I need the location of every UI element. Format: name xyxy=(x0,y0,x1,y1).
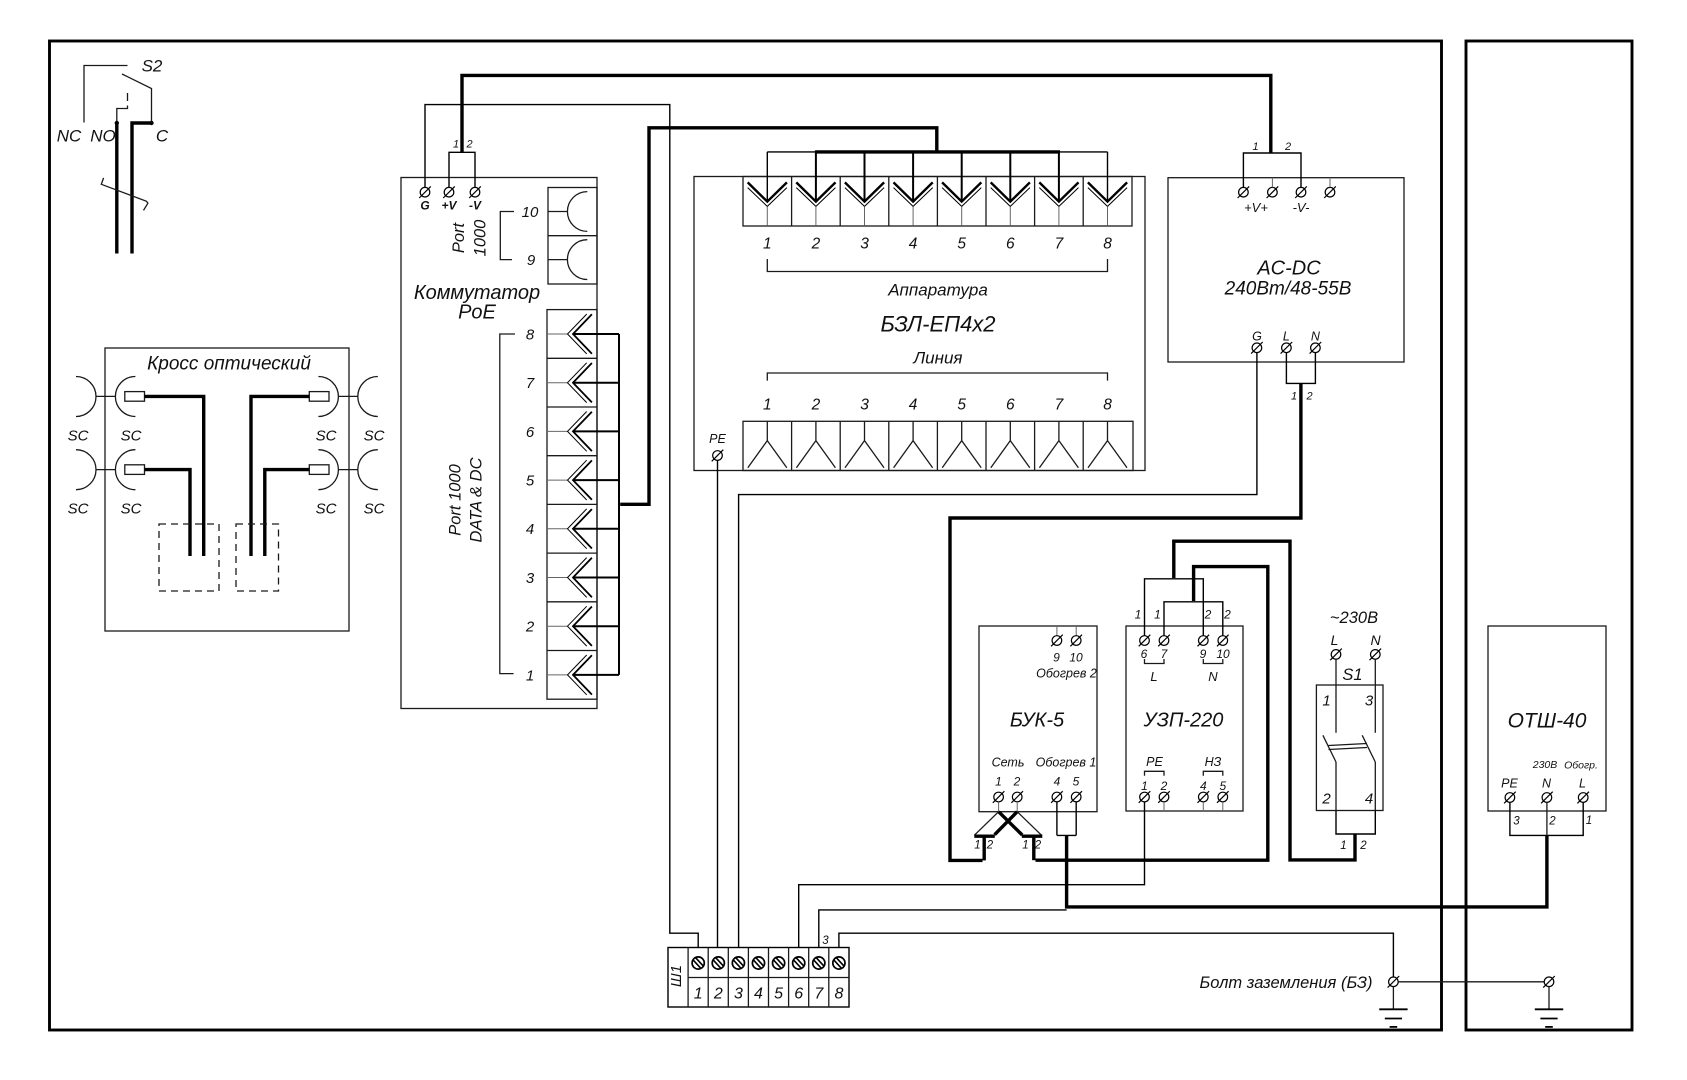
svg-text:2: 2 xyxy=(465,139,472,151)
fiber from bottom-right SC to splice box xyxy=(265,470,310,556)
BZL line pair 7 xyxy=(1039,397,1078,468)
Port 1000 group bracket xyxy=(500,212,514,260)
bus drop pin 8 xyxy=(1107,152,1109,201)
BUK crossover wire Set2 to plug1 xyxy=(995,812,1018,835)
svg-text:Обогрев 2: Обогрев 2 xyxy=(1036,667,1097,681)
svg-text:7: 7 xyxy=(1161,647,1169,661)
AC-DC input connector bracket pins 1 2 xyxy=(1243,141,1301,187)
frame left section xyxy=(50,41,1442,1030)
PoE port 6 connector arrow xyxy=(526,412,592,452)
svg-text:PE: PE xyxy=(709,432,726,446)
wire port 2 stub xyxy=(573,625,619,627)
optical cross box (Кросс оптический) xyxy=(105,348,349,631)
bus drop pin 7 xyxy=(1058,151,1060,202)
UZP terminal NZ-4 xyxy=(1198,779,1210,811)
svg-text:C: C xyxy=(156,127,169,146)
svg-text:10: 10 xyxy=(1216,647,1230,661)
splice cassette dashed box 2 xyxy=(236,524,279,591)
svg-text:1: 1 xyxy=(974,840,980,852)
OTSh connector bracket pins 3 2 1 xyxy=(1510,802,1592,835)
svg-text:2: 2 xyxy=(1160,779,1168,793)
bus drop pin 2 xyxy=(815,151,817,202)
SC connector pair bottom-left xyxy=(68,450,145,518)
svg-text:Кросс оптический: Кросс оптический xyxy=(147,354,311,375)
svg-text:2: 2 xyxy=(986,840,994,852)
PoE Port 1000 strip (ports 10,9) xyxy=(548,188,597,285)
svg-text:DATA & DC: DATA & DC xyxy=(468,457,486,542)
Sh1 screw 1 xyxy=(692,957,704,1003)
UZP PE label bracket xyxy=(1145,755,1165,776)
svg-text:Port: Port xyxy=(450,221,468,253)
OTSh 230V label xyxy=(1532,759,1558,771)
svg-text:2: 2 xyxy=(1204,608,1212,622)
Sh1 screw 5 xyxy=(773,957,785,1003)
svg-text:Обогр.: Обогр. xyxy=(1564,760,1598,772)
svg-text:УЗП-220: УЗП-220 xyxy=(1143,710,1224,732)
svg-text:4: 4 xyxy=(909,397,918,414)
BZL arrester 4 xyxy=(894,182,933,252)
svg-text:НЗ: НЗ xyxy=(1205,755,1222,769)
svg-text:L: L xyxy=(1331,632,1339,648)
svg-text:1000: 1000 xyxy=(472,219,490,257)
svg-text:2: 2 xyxy=(713,986,723,1003)
svg-text:PE: PE xyxy=(1146,755,1163,769)
PoE terminal G xyxy=(419,178,431,213)
svg-text:5: 5 xyxy=(1073,775,1080,789)
switch S2 xyxy=(57,57,169,146)
ports 8..1 group bracket xyxy=(500,334,515,674)
svg-text:БУК-5: БУК-5 xyxy=(1010,710,1065,732)
svg-text:8: 8 xyxy=(834,986,843,1003)
BUK-5 box xyxy=(979,626,1097,812)
svg-text:230В: 230В xyxy=(1532,759,1558,771)
bus drop pin 6 xyxy=(1009,151,1011,202)
svg-text:SC: SC xyxy=(121,428,142,445)
UZP output staple 7-10 xyxy=(1164,602,1223,636)
svg-text:Линия: Линия xyxy=(913,349,963,368)
svg-text:Сеть: Сеть xyxy=(992,756,1025,770)
BZL arrester 8 xyxy=(1088,182,1127,252)
fiber from top-left SC to splice box xyxy=(145,396,204,556)
S1 pole 2 contact xyxy=(1362,659,1375,810)
svg-text:+V+: +V+ xyxy=(1244,200,1268,215)
svg-text:SC: SC xyxy=(68,428,89,445)
svg-text:1: 1 xyxy=(1022,840,1028,852)
svg-text:AC-DC: AC-DC xyxy=(1256,258,1321,280)
PoE terminal -V xyxy=(469,178,482,213)
svg-text:NC: NC xyxy=(57,127,82,146)
svg-text:3: 3 xyxy=(860,236,869,253)
Port 1000 DATA & DC rotated label xyxy=(447,457,486,542)
svg-text:4: 4 xyxy=(909,236,918,253)
svg-text:SC: SC xyxy=(364,428,385,445)
thick wire S1 output to UZP input xyxy=(1174,541,1355,860)
svg-text:10: 10 xyxy=(1069,651,1083,665)
svg-text:6: 6 xyxy=(1141,647,1148,661)
svg-text:L: L xyxy=(1579,777,1586,791)
PoE terminal +V xyxy=(441,178,457,213)
BZL line pair 1 xyxy=(748,397,787,468)
OTSh PE terminal xyxy=(1501,777,1518,804)
svg-text:4: 4 xyxy=(526,521,534,538)
PoE port 4 connector arrow xyxy=(526,509,592,549)
OTSh L terminal xyxy=(1577,777,1589,804)
svg-text:3: 3 xyxy=(822,935,829,947)
bus drop pin 4 xyxy=(912,151,914,202)
wire port 7 stub xyxy=(573,382,619,384)
ground symbol right xyxy=(1535,987,1563,1027)
BUK Obogrev 2 label xyxy=(1036,667,1097,681)
BUK crossover guide Set1 left xyxy=(974,812,998,836)
earth bolt BZ label xyxy=(1200,974,1373,992)
svg-text:8: 8 xyxy=(1103,236,1112,253)
bus drop pin 1 xyxy=(766,152,768,201)
Port 1000 rotated label xyxy=(450,219,490,257)
svg-text:3: 3 xyxy=(1513,816,1520,828)
svg-text:6: 6 xyxy=(1006,236,1015,253)
BZL line pair 3 xyxy=(845,397,884,468)
wire AC-DC G to terminal Sh1-3 xyxy=(739,353,1257,948)
BZL arrester 3 xyxy=(845,182,884,252)
OTSh N terminal xyxy=(1541,777,1553,804)
wire UZP PE-1 to terminal Sh1-6 xyxy=(799,802,1145,948)
PoE power connector bracket pins 1 2 xyxy=(449,139,475,188)
svg-text:1: 1 xyxy=(453,139,459,151)
PoE port 1 connector arrow xyxy=(526,655,592,695)
svg-text:2: 2 xyxy=(1223,608,1231,622)
AC-DC terminal -V pin3 xyxy=(1295,186,1307,198)
svg-text:4: 4 xyxy=(1365,791,1373,808)
svg-text:SC: SC xyxy=(316,428,337,445)
svg-text:2: 2 xyxy=(1034,840,1042,852)
svg-text:1: 1 xyxy=(1340,840,1346,852)
SC connector pair top-right xyxy=(309,377,384,445)
svg-text:6: 6 xyxy=(1006,397,1015,414)
svg-text:L: L xyxy=(1283,330,1290,344)
UZP NZ label bracket xyxy=(1203,755,1223,776)
svg-text:Ш1: Ш1 xyxy=(668,965,685,987)
svg-text:NO: NO xyxy=(90,127,116,146)
Sh1 screw 6 xyxy=(793,957,805,1003)
BZL arrester 6 xyxy=(991,182,1030,252)
UZP terminal 9 xyxy=(1198,635,1210,661)
AC-DC mains connector bracket pins 1 2 xyxy=(1286,353,1315,403)
BUK terminal 10 xyxy=(1069,626,1083,665)
circuit breaker S1 xyxy=(1316,666,1383,811)
svg-text:7: 7 xyxy=(1055,236,1065,253)
svg-text:Аппаратура: Аппаратура xyxy=(887,281,988,300)
svg-text:~230В: ~230В xyxy=(1330,609,1378,627)
svg-text:1: 1 xyxy=(995,775,1002,789)
svg-text:2: 2 xyxy=(811,236,821,253)
svg-text:8: 8 xyxy=(526,326,535,343)
svg-text:2: 2 xyxy=(1284,141,1291,153)
svg-text:9: 9 xyxy=(1200,647,1207,661)
svg-text:S2: S2 xyxy=(142,57,163,76)
svg-text:7: 7 xyxy=(1055,397,1065,414)
wire S2 C down xyxy=(132,123,152,254)
AC-DC terminal +V pin2 xyxy=(1267,178,1279,198)
svg-text:9: 9 xyxy=(1053,651,1060,665)
PoE port 5 connector arrow xyxy=(526,460,592,500)
wire port 3 stub xyxy=(573,577,619,579)
BZL line pair 4 xyxy=(894,397,933,468)
svg-text:PoE: PoE xyxy=(458,302,496,324)
svg-text:2: 2 xyxy=(1548,816,1556,828)
wire Sh1-8 to earth bolt xyxy=(839,933,1394,977)
svg-text:1: 1 xyxy=(1322,693,1330,710)
svg-text:5: 5 xyxy=(774,986,783,1003)
BUK terminal Set-2 xyxy=(1011,775,1023,812)
S1 pole 1 contact xyxy=(1323,659,1336,810)
thick cable PoE ports to BZL bus xyxy=(620,128,937,505)
mains N terminal xyxy=(1370,632,1382,660)
splice cassette dashed box 1 xyxy=(159,524,219,591)
wire S2 NO down xyxy=(115,123,118,254)
svg-text:5: 5 xyxy=(957,397,966,414)
UZP terminal PE-1 xyxy=(1139,779,1151,803)
svg-text:5: 5 xyxy=(1219,779,1226,793)
svg-text:-V: -V xyxy=(469,199,482,213)
BUK plug 1 (left) pins 1 2 xyxy=(974,836,995,860)
svg-text:7: 7 xyxy=(814,986,824,1003)
svg-text:1: 1 xyxy=(526,667,534,684)
port bus vertical xyxy=(618,334,620,675)
svg-text:1: 1 xyxy=(1141,779,1148,793)
svg-text:240Вт/48-55В: 240Вт/48-55В xyxy=(1224,279,1352,300)
svg-text:3: 3 xyxy=(1365,693,1374,710)
svg-text:4: 4 xyxy=(754,986,763,1003)
BZL Apparatura strip xyxy=(743,177,1132,227)
wire Sh1-7 to heater circuit, wire 3 xyxy=(819,910,1067,948)
cable slash mark on S2 wires xyxy=(101,178,148,211)
svg-text:1: 1 xyxy=(1586,815,1592,827)
svg-text:1: 1 xyxy=(1154,608,1161,622)
PoE port 3 connector arrow xyxy=(526,558,592,598)
wire earth bolt to right section bolt xyxy=(1398,981,1544,983)
wire BZL PE to terminal Sh1-2 xyxy=(717,461,719,948)
svg-text:G: G xyxy=(1252,330,1262,344)
svg-text:SC: SC xyxy=(316,501,337,518)
S1 output bracket pins 1 2 xyxy=(1336,811,1375,853)
fiber from top-right SC to splice box xyxy=(251,396,309,556)
svg-text:5: 5 xyxy=(526,473,535,490)
BZL arrester 2 xyxy=(796,182,835,252)
svg-text:3: 3 xyxy=(734,986,743,1003)
~230V mains label xyxy=(1330,609,1378,627)
BZL PE terminal xyxy=(709,432,726,461)
BUK Obogrev 1 label xyxy=(1036,756,1097,770)
UZP-220 box xyxy=(1126,626,1243,811)
BZL distribution bus xyxy=(767,151,1107,153)
svg-text:Обогрев 1: Обогрев 1 xyxy=(1036,756,1097,770)
OTSh Obogr label xyxy=(1564,760,1598,772)
svg-text:2: 2 xyxy=(1359,840,1367,852)
UZP terminal 6 xyxy=(1139,635,1151,661)
wire PoE G to terminal Sh1-1 xyxy=(425,105,698,948)
BZL arrester 7 xyxy=(1039,182,1078,252)
svg-text:9: 9 xyxy=(527,252,536,269)
earth bolt terminal right xyxy=(1543,976,1555,988)
earth bolt terminal left xyxy=(1388,976,1400,988)
svg-text:2: 2 xyxy=(525,619,535,636)
PoE port 7 connector arrow xyxy=(526,363,592,403)
SC connector pair bottom-right xyxy=(309,450,384,518)
SC connector pair top-left xyxy=(68,377,145,445)
BZL line pair 5 xyxy=(942,397,981,468)
thick wire PoE 1,2 to AC-DC +V+/-V- xyxy=(462,75,1271,152)
AC-DC bottom N terminal xyxy=(1310,330,1322,354)
BZL Linia strip xyxy=(743,421,1133,470)
BUK crossover wire Set1 to plug2 xyxy=(999,812,1023,835)
UZP terminal PE-2 xyxy=(1158,779,1170,811)
svg-text:-V-: -V- xyxy=(1293,200,1311,215)
svg-text:2: 2 xyxy=(1013,775,1021,789)
AC-DC bottom G terminal xyxy=(1251,330,1263,354)
mains L terminal xyxy=(1330,632,1342,660)
PoE port 9 jack xyxy=(527,240,587,280)
svg-text:БЗЛ-ЕП4х2: БЗЛ-ЕП4х2 xyxy=(880,312,995,337)
S1 mechanical linkage xyxy=(1329,744,1368,750)
AC-DC +V+ label xyxy=(1244,200,1268,215)
wire port 8 stub xyxy=(573,333,619,335)
terminal block Sh1 xyxy=(668,948,849,1008)
svg-text:Болт заземления (БЗ): Болт заземления (БЗ) xyxy=(1200,974,1373,992)
ground symbol left xyxy=(1379,987,1407,1027)
svg-text:3: 3 xyxy=(860,397,869,414)
AC-DC bottom L terminal xyxy=(1281,330,1293,354)
svg-text:6: 6 xyxy=(794,986,803,1003)
BUK terminal 9 xyxy=(1051,626,1063,665)
bus drop pin 3 xyxy=(864,151,866,202)
svg-text:2: 2 xyxy=(1321,791,1331,808)
UZP connector pin labels 1 1 2 2 xyxy=(1135,608,1232,622)
BUK terminal Obogrev-4 xyxy=(1051,775,1063,803)
thick wire AC-DC mains to BUK plug 1 xyxy=(950,383,1301,860)
BZL arrester 5 xyxy=(942,182,981,252)
wire port 6 stub xyxy=(573,430,619,432)
svg-text:1: 1 xyxy=(763,397,772,414)
Sh1 screw 7 xyxy=(813,957,825,1003)
BZL-EP4x2 box xyxy=(694,177,1145,471)
svg-text:G: G xyxy=(420,199,429,213)
UZP L bracket xyxy=(1145,659,1165,684)
BUK terminal Obogrev-5 xyxy=(1070,775,1082,803)
svg-text:2: 2 xyxy=(811,397,821,414)
UZP terminal NZ-5 xyxy=(1217,779,1229,811)
svg-text:+V: +V xyxy=(441,199,457,213)
svg-text:1: 1 xyxy=(1291,391,1297,403)
BUK Obogrev1 output bracket xyxy=(1057,802,1076,836)
UZP terminal 7 xyxy=(1158,635,1170,661)
bus drop pin 5 xyxy=(961,151,963,202)
svg-text:Port 1000: Port 1000 xyxy=(447,463,465,535)
svg-text:SC: SC xyxy=(121,501,142,518)
PoE switch box (Коммутатор PoE) xyxy=(401,178,597,709)
svg-text:N: N xyxy=(1370,632,1381,648)
AC-DC power supply box xyxy=(1168,178,1404,362)
BUK plug 2 (right) pins 1 2 xyxy=(1022,836,1043,860)
BZL line pair 8 xyxy=(1088,397,1127,468)
fiber from bottom-left SC to splice box xyxy=(145,470,191,556)
svg-text:4: 4 xyxy=(1200,779,1207,793)
svg-text:ОТШ-40: ОТШ-40 xyxy=(1508,710,1587,733)
AC-DC terminal -V pin4 xyxy=(1324,178,1336,198)
BZL line pair 2 xyxy=(796,397,835,468)
svg-text:PE: PE xyxy=(1501,777,1518,791)
frame right section xyxy=(1466,41,1632,1030)
PoE port 2 connector arrow xyxy=(525,606,592,646)
Apparatura group bracket xyxy=(767,259,1107,300)
UZP terminal 10 xyxy=(1216,635,1230,661)
svg-text:1: 1 xyxy=(1135,608,1142,622)
Sh1 screw 2 xyxy=(712,957,724,1003)
AC-DC terminal +V pin1 xyxy=(1238,186,1250,198)
svg-text:1: 1 xyxy=(1252,141,1258,153)
BZL line pair 6 xyxy=(991,397,1030,468)
svg-text:1: 1 xyxy=(694,986,703,1003)
wire port 4 stub xyxy=(573,528,619,530)
wire port 5 stub xyxy=(573,479,619,481)
svg-text:5: 5 xyxy=(957,236,966,253)
svg-text:N: N xyxy=(1311,330,1321,344)
BZL arrester 1 xyxy=(748,182,787,252)
Sh1 screw 4 xyxy=(752,957,764,1003)
BUK Set label xyxy=(992,756,1025,770)
PoE port 10 jack xyxy=(522,192,588,232)
svg-text:SC: SC xyxy=(364,501,385,518)
wire port 1 stub xyxy=(573,674,619,676)
PoE data ports strip (ports 8..1) xyxy=(547,310,597,700)
UZP input staple 6-9 xyxy=(1145,579,1204,636)
svg-text:SC: SC xyxy=(68,501,89,518)
svg-text:1: 1 xyxy=(763,236,772,253)
svg-text:L: L xyxy=(1150,669,1157,684)
BUK terminal Set-1 xyxy=(993,775,1005,812)
Sh1 screw 8 xyxy=(833,957,845,1003)
OTSh-40 box xyxy=(1488,626,1606,811)
svg-text:3: 3 xyxy=(526,570,535,587)
thick wire UZP output to BUK plug 2 xyxy=(1036,567,1268,861)
svg-text:N: N xyxy=(1542,777,1552,791)
svg-text:4: 4 xyxy=(1054,775,1061,789)
svg-text:S1: S1 xyxy=(1342,666,1362,684)
Sh1 screw 3 xyxy=(732,957,744,1003)
AC-DC -V- label xyxy=(1293,200,1311,215)
Linia group bracket xyxy=(767,349,1107,381)
svg-text:8: 8 xyxy=(1103,397,1112,414)
BUK crossover guide Set2 right xyxy=(1017,812,1041,836)
svg-text:10: 10 xyxy=(522,204,539,221)
svg-text:N: N xyxy=(1208,669,1218,684)
svg-text:6: 6 xyxy=(526,424,535,441)
PoE port 8 connector arrow xyxy=(526,314,592,354)
svg-text:2: 2 xyxy=(1305,391,1312,403)
UZP N bracket xyxy=(1203,659,1223,684)
svg-text:7: 7 xyxy=(526,375,535,392)
thick wire BUK Obogrev1 to OTSh N xyxy=(1067,835,1547,907)
